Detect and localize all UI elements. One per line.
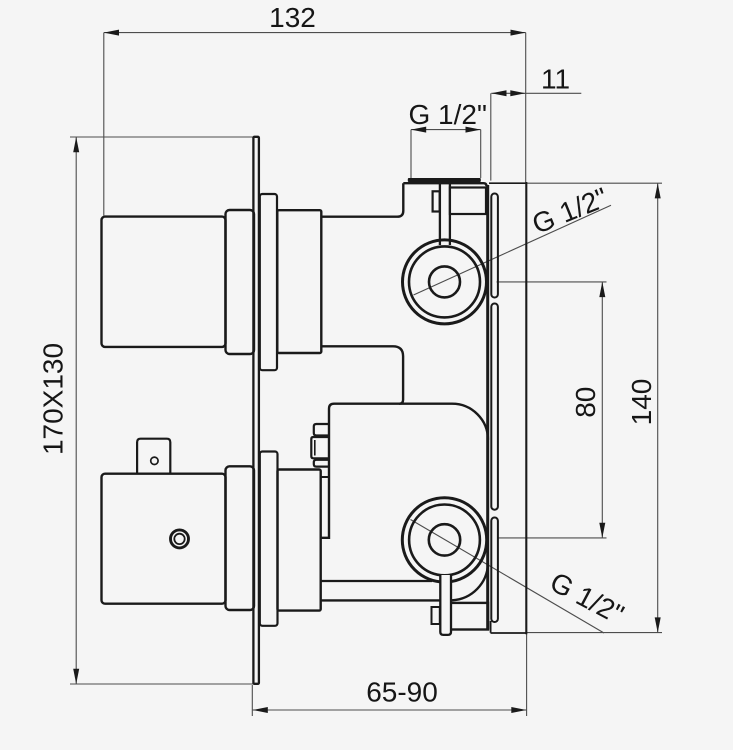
dim 132 left extension	[103, 33, 105, 216]
lower circle inner	[429, 524, 460, 555]
arrow 11 right	[510, 90, 525, 96]
block bottom edge	[321, 599, 440, 601]
upper flange front	[226, 210, 255, 354]
140 bottom extension	[527, 632, 663, 634]
block top edge and corner	[399, 404, 488, 440]
tab on lower cylinder	[137, 439, 170, 474]
dim G 1/2 top line	[411, 129, 481, 131]
G 1/2 top left extension	[410, 130, 412, 178]
screw on lower cylinder	[171, 530, 189, 548]
arrow G1/2 right	[466, 127, 481, 133]
dim 65-90 line	[253, 709, 527, 711]
upper circle outer	[403, 240, 487, 324]
hex band middle	[311, 437, 329, 458]
arrow 170X130 bottom	[73, 669, 79, 684]
80 bottom extension	[497, 537, 607, 539]
lower circle outer	[402, 498, 486, 582]
channel tick	[321, 476, 329, 478]
svg-text:G 1/2": G 1/2"	[408, 99, 486, 130]
65-90 left extension	[251, 685, 253, 716]
hex band top	[314, 424, 329, 436]
80 top extension	[497, 281, 607, 283]
body right edge	[486, 185, 489, 630]
dim 11 line	[491, 92, 581, 94]
G 1/2 top right extension	[480, 130, 482, 178]
svg-text:140: 140	[626, 379, 657, 426]
block interior bottom line	[321, 580, 432, 582]
arrow 132 right	[511, 30, 526, 36]
arrow 80 top	[599, 282, 605, 297]
dim 132 / wall front extension	[525, 33, 527, 182]
strip to wall-bottom connector	[490, 621, 492, 633]
strip 2	[491, 304, 498, 510]
arrow 65-90 left	[253, 707, 268, 713]
foot rect	[451, 603, 488, 630]
lower circle middle	[409, 505, 480, 576]
dim 132 line	[104, 32, 526, 34]
lower stem	[440, 575, 451, 635]
bonnet rect	[450, 188, 486, 215]
neck bottom edge	[321, 346, 403, 538]
dim 170X130 line	[75, 137, 77, 684]
arrow 11 left	[491, 90, 506, 96]
lower flange front	[226, 466, 255, 610]
dim 11 left extension	[490, 93, 492, 180]
upper flange rear	[277, 210, 321, 353]
arrow 140 bottom	[655, 617, 661, 632]
wall plate	[253, 137, 259, 684]
svg-text:65-90: 65-90	[366, 677, 438, 708]
tab hole	[151, 457, 158, 464]
wall front face	[525, 182, 527, 634]
svg-text:170X130: 170X130	[38, 343, 69, 455]
upper body cylinder	[102, 217, 226, 347]
arrow 132 left	[104, 30, 119, 36]
body upper-left neck	[321, 183, 403, 217]
strip 3	[491, 518, 498, 623]
leader G 1/2 lower	[411, 520, 605, 634]
170X130 bottom extension	[70, 683, 253, 685]
140 top extension	[527, 182, 663, 184]
block bottom-right arc	[452, 564, 488, 601]
lower body cylinder	[102, 474, 226, 604]
lower slip ring	[260, 452, 278, 626]
svg-text:132: 132	[269, 2, 316, 33]
upper stem	[440, 182, 450, 245]
hex band bottom	[314, 460, 329, 467]
arrow 65-90 right	[511, 707, 526, 713]
leader G 1/2 upper	[414, 205, 612, 295]
upper circle middle	[409, 246, 480, 317]
lower stem tab	[432, 607, 440, 624]
wall top edge	[489, 182, 527, 184]
hex facet line	[314, 440, 316, 456]
arrow 80 bottom	[599, 523, 605, 538]
dim 80 line	[601, 282, 603, 538]
port bar	[408, 178, 481, 182]
arrow 170X130 top	[73, 137, 79, 152]
arrow 140 top	[655, 183, 661, 198]
dim 140 line	[657, 183, 659, 632]
body top edge	[403, 183, 486, 186]
lower flange rear	[278, 470, 321, 611]
svg-text:80: 80	[570, 387, 601, 418]
upper slip ring	[260, 194, 277, 370]
arrow G1/2 left	[411, 127, 426, 133]
170X130 top extension	[70, 136, 253, 138]
stem left tab	[433, 191, 440, 211]
wall bottom edge	[491, 632, 527, 634]
65-90 right extension	[526, 634, 528, 716]
strip 1	[491, 194, 498, 298]
upper circle inner	[429, 266, 460, 297]
svg-text:11: 11	[541, 63, 570, 94]
